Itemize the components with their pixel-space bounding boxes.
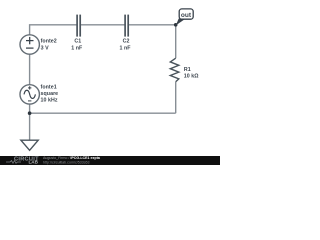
svg-text:C1: C1 [74,39,81,45]
svg-text:LAB: LAB [29,160,39,165]
svg-text:C2: C2 [123,39,130,45]
svg-text:3 V: 3 V [41,45,50,51]
svg-text:10 kHz: 10 kHz [41,98,58,104]
label C2 value [120,39,132,52]
wire bottom rail [30,112,176,114]
voltage source fonte2 [20,35,39,54]
junction bottom rail [28,111,32,115]
footer bar [0,156,220,165]
svg-text:fonte1: fonte1 [41,84,57,90]
svg-text:1 nF: 1 nF [71,46,83,52]
wire between fonte2 and fonte1 [29,54,31,85]
label fonte1 value [41,84,59,103]
wire R1 to bottom rail [175,82,177,113]
wire ground stem [29,113,31,140]
ground [21,140,38,150]
function generator fonte1 [20,85,39,104]
label C1 value [71,39,83,52]
label fonte2 value [41,39,57,52]
svg-text:http://circuitlab.com/c/533c63: http://circuitlab.com/c/533c63 [43,160,90,164]
resistor R1 [170,58,179,82]
capacitor C2 [125,15,128,37]
wire top-left corner from fonte2 to top rail [30,25,78,35]
capacitor C1 [77,15,80,37]
svg-text:square: square [41,91,59,97]
svg-text:1 nF: 1 nF [120,46,132,52]
wire top rail between C1 and C2 [80,24,125,26]
wire node out down to R1 [175,25,177,58]
svg-text:10 kΩ: 10 kΩ [184,74,200,80]
footer logo waveform [6,161,21,164]
wire top rail from C2 to node out [128,24,176,26]
wire fonte1 to bottom junction [29,104,31,113]
node out junction [174,23,178,27]
svg-text:out: out [181,12,192,19]
svg-text:fonte2: fonte2 [41,39,57,45]
label R1 value [184,67,200,80]
node out flag [179,9,193,19]
svg-text:R1: R1 [184,67,191,73]
node out flag pointer [176,19,186,26]
